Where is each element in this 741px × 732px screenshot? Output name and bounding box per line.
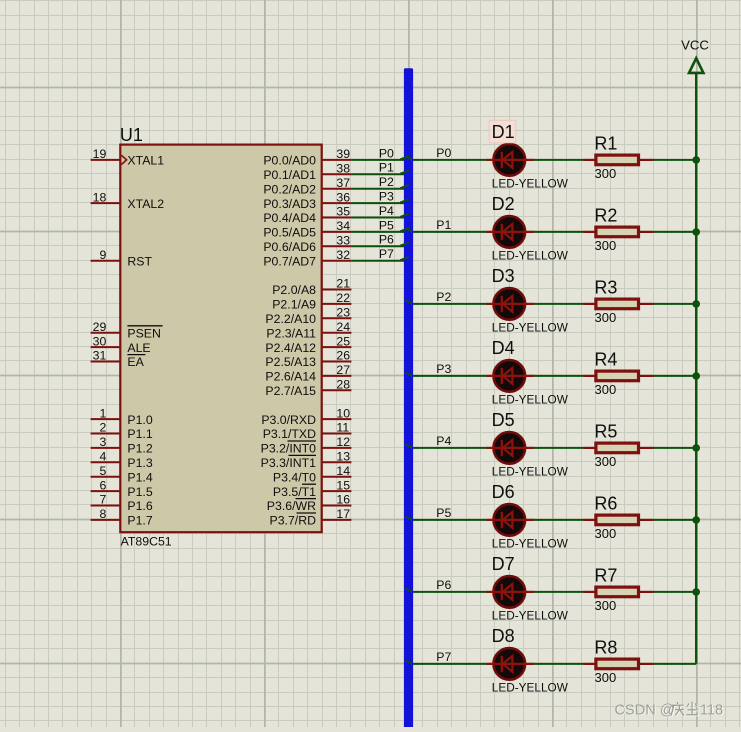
pin 21 stub (P2.0/A8)	[272, 277, 351, 298]
svg-text:P0.7/AD7: P0.7/AD7	[263, 254, 316, 268]
label R8	[594, 638, 617, 658]
svg-text:30: 30	[93, 334, 107, 348]
svg-text:P3: P3	[379, 190, 394, 204]
wire LED D2 to resistor R2	[534, 231, 584, 233]
pin 10 stub (P3.0/RXD)	[261, 406, 351, 427]
value 300 for R4	[595, 382, 617, 397]
svg-text:17: 17	[336, 507, 350, 521]
svg-text:22: 22	[336, 291, 350, 305]
junction dot at rail row D3	[692, 300, 700, 308]
svg-text:P1.2: P1.2	[127, 442, 152, 456]
svg-text:1: 1	[99, 406, 106, 420]
VCC rail wire	[695, 73, 697, 664]
label AT89C51	[121, 535, 172, 549]
pin 7 stub (P1.6)	[91, 493, 153, 514]
svg-text:300: 300	[595, 598, 617, 613]
net label P0 (left of bus)	[379, 146, 394, 160]
highlight box on label D1	[489, 120, 516, 143]
wire bus to LED D1 (net P0)	[405, 159, 487, 161]
wire LED D1 to resistor R1	[534, 159, 584, 161]
svg-text:P5: P5	[436, 506, 451, 520]
svg-text:LED-YELLOW: LED-YELLOW	[492, 177, 569, 191]
LED D8 (LED-YELLOW)	[487, 648, 535, 680]
svg-text:4: 4	[99, 450, 106, 464]
svg-text:LED-YELLOW: LED-YELLOW	[492, 393, 569, 407]
pin 25 stub (P2.4/A12)	[265, 334, 351, 355]
label D4	[492, 338, 515, 358]
resistor R6	[584, 515, 654, 525]
svg-text:D6: D6	[492, 482, 515, 502]
svg-text:R4: R4	[594, 350, 617, 370]
svg-text:39: 39	[336, 147, 350, 161]
label LED-YELLOW for D3	[492, 321, 569, 335]
svg-text:ALE: ALE	[127, 341, 150, 355]
junction dot at rail row D2	[692, 228, 700, 236]
svg-text:P0.6/AD6: P0.6/AD6	[263, 240, 316, 254]
pin 28 stub (P2.7/A15)	[265, 378, 351, 399]
svg-text:P1.0: P1.0	[127, 413, 152, 427]
svg-text:XTAL2: XTAL2	[127, 197, 164, 211]
svg-text:34: 34	[336, 219, 350, 233]
svg-text:3: 3	[99, 435, 106, 449]
junction dot at rail row D5	[692, 444, 700, 452]
bus entry (right wire P5)	[405, 517, 412, 520]
pin 31 stub (EA)	[91, 349, 146, 370]
svg-text:P1.3: P1.3	[127, 456, 152, 470]
pin 2 stub (P1.1)	[91, 421, 153, 442]
resistor R1	[584, 155, 654, 165]
svg-text:CSDN @: CSDN @	[615, 702, 675, 718]
svg-text:R2: R2	[594, 206, 617, 226]
wire bus to LED D4 (net P3)	[405, 375, 487, 377]
label LED-YELLOW for D5	[492, 465, 569, 479]
label D3	[492, 266, 515, 286]
svg-text:300: 300	[595, 382, 617, 397]
svg-text:21: 21	[336, 277, 350, 291]
label R5	[594, 422, 617, 442]
pin 38 stub (P0.1/AD1)	[263, 162, 351, 183]
bus entry (right wire P1)	[405, 229, 412, 232]
svg-text:P2.1/A9: P2.1/A9	[272, 298, 316, 312]
pin 22 stub (P2.1/A9)	[272, 291, 351, 312]
svg-text:RST: RST	[127, 254, 152, 268]
svg-text:P1.4: P1.4	[127, 470, 152, 484]
bus entry (left wire P4)	[400, 214, 409, 217]
wire pin 37 to bus (net P2)	[351, 188, 405, 190]
svg-text:27: 27	[336, 363, 350, 377]
svg-text:R3: R3	[594, 278, 617, 298]
svg-text:LED-YELLOW: LED-YELLOW	[492, 681, 569, 695]
svg-text:9: 9	[99, 248, 106, 262]
svg-text:29: 29	[93, 320, 107, 334]
pin 16 stub (P3.6/WR)	[267, 493, 352, 514]
svg-text:15: 15	[336, 478, 350, 492]
pin 13 stub (P3.3/INT1)	[261, 450, 352, 471]
label R4	[594, 350, 617, 370]
svg-text:5: 5	[99, 464, 106, 478]
svg-text:P2.4/A12: P2.4/A12	[265, 341, 316, 355]
net label P4 (right of bus)	[436, 434, 451, 448]
svg-text:LED-YELLOW: LED-YELLOW	[492, 249, 569, 263]
pin 24 stub (P2.3/A11)	[266, 320, 351, 341]
value 300 for R2	[595, 238, 617, 253]
svg-text:P1.6: P1.6	[127, 499, 152, 513]
svg-text:P1.5: P1.5	[127, 485, 152, 499]
label R1	[594, 134, 617, 154]
svg-text:P1.7: P1.7	[127, 514, 152, 528]
wire bus to LED D3 (net P2)	[405, 303, 487, 305]
wire LED D4 to resistor R4	[534, 375, 584, 377]
pin 4 stub (P1.3)	[91, 450, 153, 471]
svg-text:P3.4/T0: P3.4/T0	[273, 470, 316, 484]
LED D4 (LED-YELLOW)	[487, 360, 535, 392]
svg-text:P3.1/TXD: P3.1/TXD	[263, 427, 316, 441]
bus entry (left wire P1)	[400, 171, 409, 174]
svg-text:19: 19	[93, 147, 107, 161]
svg-text:P6: P6	[379, 233, 394, 247]
svg-text:VCC: VCC	[681, 38, 709, 53]
svg-text:P0: P0	[379, 146, 394, 160]
svg-text:R1: R1	[594, 134, 617, 154]
svg-text:300: 300	[595, 670, 617, 685]
svg-text:P3.2/INT0: P3.2/INT0	[261, 442, 317, 456]
pin 11 stub (P3.1/TXD)	[263, 421, 352, 442]
bus entry (right wire P6)	[405, 589, 412, 592]
svg-text:118: 118	[700, 702, 723, 718]
svg-text:300: 300	[595, 166, 617, 181]
pin 39 stub (P0.0/AD0)	[263, 147, 351, 168]
svg-text:25: 25	[336, 334, 350, 348]
net label P0 (right of bus)	[436, 146, 451, 160]
pin 30 stub (ALE)	[91, 334, 151, 355]
svg-text:32: 32	[336, 248, 350, 262]
junction dot at rail row D1	[692, 156, 700, 164]
svg-text:38: 38	[336, 162, 350, 176]
svg-text:P2.0/A8: P2.0/A8	[272, 283, 316, 297]
pin 5 stub (P1.4)	[91, 464, 153, 485]
resistor R3	[584, 299, 654, 309]
pin 18 stub (XTAL2)	[91, 190, 165, 211]
svg-text:R7: R7	[594, 566, 617, 586]
wire resistor R6 to rail	[653, 519, 696, 521]
label R3	[594, 278, 617, 298]
wire LED D7 to resistor R7	[534, 591, 584, 593]
pin 27 stub (P2.6/A14)	[265, 363, 351, 384]
svg-text:24: 24	[336, 320, 350, 334]
label R2	[594, 206, 617, 226]
LED D6 (LED-YELLOW)	[487, 504, 535, 536]
svg-text:P0: P0	[436, 146, 451, 160]
svg-text:PSEN: PSEN	[127, 326, 160, 340]
svg-text:P2: P2	[436, 290, 451, 304]
svg-text:13: 13	[336, 450, 350, 464]
svg-text:D5: D5	[492, 410, 515, 430]
net label P1 (left of bus)	[379, 161, 394, 175]
pin 6 stub (P1.5)	[91, 478, 153, 499]
pin 36 stub (P0.3/AD3)	[263, 190, 351, 211]
bus entry (right wire P7)	[405, 661, 412, 664]
svg-text:D7: D7	[492, 554, 515, 574]
value 300 for R8	[595, 670, 617, 685]
pin 19 stub (XTAL1)	[91, 147, 165, 168]
resistor R5	[584, 443, 654, 453]
label U1	[120, 125, 143, 145]
label R6	[594, 494, 617, 514]
wire LED D3 to resistor R3	[534, 303, 584, 305]
bus entry (left wire P6)	[400, 243, 409, 246]
junction dot at rail row D4	[692, 372, 700, 380]
pin 8 stub (P1.7)	[91, 507, 153, 528]
svg-text:300: 300	[595, 238, 617, 253]
wire resistor R4 to rail	[653, 375, 696, 377]
svg-text:2: 2	[99, 421, 106, 435]
XTAL1 clock chevron	[121, 155, 126, 164]
svg-text:XTAL1: XTAL1	[127, 154, 164, 168]
label LED-YELLOW for D2	[492, 249, 569, 263]
pin 35 stub (P0.4/AD4)	[263, 205, 351, 226]
svg-text:D1: D1	[492, 122, 515, 142]
svg-text:P3.6/WR: P3.6/WR	[267, 499, 316, 513]
wire resistor R5 to rail	[653, 447, 696, 449]
svg-text:P2.3/A11: P2.3/A11	[266, 326, 316, 340]
svg-text:18: 18	[93, 190, 107, 204]
pin 33 stub (P0.6/AD6)	[263, 234, 351, 255]
label D2	[492, 194, 515, 214]
svg-text:28: 28	[336, 378, 350, 392]
svg-text:LED-YELLOW: LED-YELLOW	[492, 321, 569, 335]
resistor R2	[584, 227, 654, 237]
wire LED D6 to resistor R6	[534, 519, 584, 521]
wire bus to LED D8 (net P7)	[405, 663, 487, 665]
bus entry (left wire P7)	[400, 257, 409, 260]
svg-text:P2.5/A13: P2.5/A13	[265, 355, 316, 369]
pin 32 stub (P0.7/AD7)	[263, 248, 351, 269]
svg-text:P0.5/AD5: P0.5/AD5	[263, 226, 316, 240]
wire pin 39 to bus (net P0)	[351, 159, 405, 161]
LED D7 (LED-YELLOW)	[487, 576, 535, 608]
LED D3 (LED-YELLOW)	[487, 288, 535, 320]
pin 3 stub (P1.2)	[91, 435, 153, 456]
net label P6 (right of bus)	[436, 578, 451, 592]
svg-text:P2.2/A10: P2.2/A10	[265, 312, 316, 326]
svg-text:P0.4/AD4: P0.4/AD4	[263, 211, 316, 225]
svg-text:EA: EA	[127, 355, 144, 369]
bus entry (left wire P0)	[400, 156, 409, 159]
svg-text:P4: P4	[436, 434, 451, 448]
resistor R4	[584, 371, 654, 381]
svg-text:P0.2/AD2: P0.2/AD2	[263, 182, 316, 196]
svg-text:11: 11	[336, 421, 349, 435]
wire pin 36 to bus (net P3)	[351, 202, 405, 204]
svg-text:P3.0/RXD: P3.0/RXD	[261, 413, 316, 427]
net label P4 (left of bus)	[379, 204, 394, 218]
resistor R7	[584, 587, 654, 597]
net label P5 (right of bus)	[436, 506, 451, 520]
value 300 for R1	[595, 166, 617, 181]
svg-text:31: 31	[93, 349, 107, 363]
svg-text:P1.1: P1.1	[127, 427, 152, 441]
wire LED D8 to resistor R8	[534, 663, 584, 665]
svg-text:D2: D2	[492, 194, 515, 214]
net label P7 (left of bus)	[379, 247, 394, 261]
pin 26 stub (P2.5/A13)	[265, 349, 351, 370]
wire resistor R8 to rail	[653, 663, 696, 665]
value 300 for R7	[595, 598, 617, 613]
label LED-YELLOW for D6	[492, 537, 569, 551]
wire pin 32 to bus (net P7)	[351, 260, 405, 262]
label D5	[492, 410, 515, 430]
pin 37 stub (P0.2/AD2)	[263, 176, 351, 197]
bus entry (right wire P2)	[405, 301, 412, 304]
wire pin 35 to bus (net P4)	[351, 217, 405, 219]
pin 34 stub (P0.5/AD5)	[263, 219, 351, 240]
label D6	[492, 482, 515, 502]
net label P3 (right of bus)	[436, 362, 451, 376]
junction dot at rail row D6	[692, 516, 700, 524]
label D7	[492, 554, 515, 574]
pin 9 stub (RST)	[91, 248, 153, 269]
pin 12 stub (P3.2/INT0)	[261, 435, 352, 456]
svg-text:23: 23	[336, 306, 350, 320]
value 300 for R5	[595, 454, 617, 469]
svg-text:P3.5/T1: P3.5/T1	[273, 485, 316, 499]
svg-text:P7: P7	[436, 650, 451, 664]
svg-text:R8: R8	[594, 638, 617, 658]
net label P1 (right of bus)	[436, 218, 451, 232]
pin 17 stub (P3.7/RD)	[270, 507, 352, 528]
value 300 for R3	[595, 310, 617, 325]
svg-text:33: 33	[336, 234, 350, 248]
net label P3 (left of bus)	[379, 190, 394, 204]
wire resistor R7 to rail	[653, 591, 696, 593]
bus entry (right wire P0)	[405, 157, 412, 160]
junction dot at rail row D7	[692, 588, 700, 596]
svg-text:P3: P3	[436, 362, 451, 376]
wire resistor R2 to rail	[653, 231, 696, 233]
label VCC	[681, 38, 709, 53]
svg-text:P2.7/A15: P2.7/A15	[265, 384, 316, 398]
watermark	[615, 702, 725, 720]
wire bus to LED D2 (net P1)	[405, 231, 487, 233]
svg-text:300: 300	[595, 310, 617, 325]
svg-text:35: 35	[336, 205, 350, 219]
label R7	[594, 566, 617, 586]
IC U1 body (AT89C51)	[120, 145, 321, 533]
pin 15 stub (P3.5/T1)	[273, 478, 351, 499]
svg-text:P0.3/AD3: P0.3/AD3	[263, 197, 316, 211]
svg-text:P7: P7	[379, 247, 394, 261]
svg-text:LED-YELLOW: LED-YELLOW	[492, 609, 569, 623]
label D8	[492, 626, 515, 646]
wire resistor R3 to rail	[653, 303, 696, 305]
LED D2 (LED-YELLOW)	[487, 216, 535, 248]
svg-text:26: 26	[336, 349, 350, 363]
label LED-YELLOW for D4	[492, 393, 569, 407]
svg-text:LED-YELLOW: LED-YELLOW	[492, 537, 569, 551]
svg-text:AT89C51: AT89C51	[121, 535, 172, 549]
svg-text:300: 300	[595, 526, 617, 541]
svg-text:D4: D4	[492, 338, 515, 358]
bus entry (left wire P2)	[400, 185, 409, 188]
svg-text:P3.3/INT1: P3.3/INT1	[261, 456, 317, 470]
svg-text:36: 36	[336, 190, 350, 204]
wire bus to LED D5 (net P4)	[405, 447, 487, 449]
bus entry (left wire P5)	[400, 228, 409, 231]
svg-text:6: 6	[99, 478, 106, 492]
wire bus to LED D6 (net P5)	[405, 519, 487, 521]
svg-text:P4: P4	[379, 204, 394, 218]
pin 1 stub (P1.0)	[91, 406, 153, 427]
bus (blue)	[404, 68, 413, 730]
pin 23 stub (P2.2/A10)	[265, 306, 351, 327]
svg-text:P2: P2	[379, 175, 394, 189]
svg-text:P0.0/AD0: P0.0/AD0	[263, 154, 316, 168]
svg-text:P1: P1	[436, 218, 451, 232]
svg-text:8: 8	[99, 507, 106, 521]
net label P7 (right of bus)	[436, 650, 451, 664]
svg-text:14: 14	[336, 464, 350, 478]
svg-text:P1: P1	[379, 161, 394, 175]
svg-text:LED-YELLOW: LED-YELLOW	[492, 465, 569, 479]
svg-text:16: 16	[336, 493, 350, 507]
net label P6 (left of bus)	[379, 233, 394, 247]
label LED-YELLOW for D7	[492, 609, 569, 623]
wire LED D5 to resistor R5	[534, 447, 584, 449]
label LED-YELLOW for D1	[492, 177, 569, 191]
svg-text:300: 300	[595, 454, 617, 469]
svg-text:12: 12	[336, 435, 350, 449]
bus entry (right wire P3)	[405, 373, 412, 376]
svg-text:R6: R6	[594, 494, 617, 514]
value 300 for R6	[595, 526, 617, 541]
svg-text:P3.7/RD: P3.7/RD	[270, 514, 317, 528]
label D1	[492, 122, 515, 142]
pin 14 stub (P3.4/T0)	[273, 464, 351, 485]
svg-text:D3: D3	[492, 266, 515, 286]
svg-text:10: 10	[336, 406, 350, 420]
pin 29 stub (PSEN)	[91, 320, 163, 341]
VCC power symbol	[689, 58, 703, 73]
resistor R8	[584, 659, 654, 669]
svg-text:P2.6/A14: P2.6/A14	[265, 370, 316, 384]
label LED-YELLOW for D8	[492, 681, 569, 695]
net label P5 (left of bus)	[379, 218, 394, 232]
bus entry (right wire P4)	[405, 445, 412, 448]
wire bus to LED D7 (net P6)	[405, 591, 487, 593]
net label P2 (left of bus)	[379, 175, 394, 189]
svg-text:U1: U1	[120, 125, 143, 145]
net label P2 (right of bus)	[436, 290, 451, 304]
wire pin 38 to bus (net P1)	[351, 173, 405, 175]
svg-text:P6: P6	[436, 578, 451, 592]
LED D1 (LED-YELLOW)	[487, 144, 535, 176]
svg-text:37: 37	[336, 176, 350, 190]
svg-text:P0.1/AD1: P0.1/AD1	[263, 168, 316, 182]
wire resistor R1 to rail	[653, 159, 696, 161]
bus entry (left wire P3)	[400, 199, 409, 202]
wire pin 33 to bus (net P6)	[351, 245, 405, 247]
svg-text:7: 7	[99, 493, 106, 507]
svg-text:R5: R5	[594, 422, 617, 442]
svg-text:D8: D8	[492, 626, 515, 646]
LED D5 (LED-YELLOW)	[487, 432, 535, 464]
wire pin 34 to bus (net P5)	[351, 231, 405, 233]
svg-text:P5: P5	[379, 218, 394, 232]
